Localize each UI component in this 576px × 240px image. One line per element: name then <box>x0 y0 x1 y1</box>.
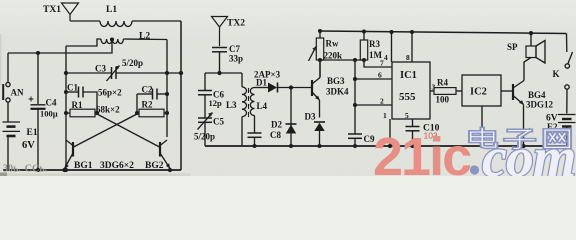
transformer core dashes <box>248 88 250 117</box>
wire threshold vertical x355 <box>354 60 356 134</box>
svg-text:5: 5 <box>405 111 409 120</box>
inductor L1 <box>100 5 132 27</box>
svg-text:100: 100 <box>436 95 450 105</box>
svg-text:AN: AN <box>11 88 24 98</box>
node antenna tank <box>217 71 221 75</box>
diode D1 <box>255 78 313 93</box>
svg-text:8: 8 <box>406 53 410 62</box>
wire left rail upper <box>7 53 9 82</box>
svg-text:R3: R3 <box>369 39 380 49</box>
resistor R3 <box>360 32 392 68</box>
capacitor C9 <box>348 134 375 146</box>
svg-text:IC2: IC2 <box>470 87 487 98</box>
wire Rw to R3 bottom <box>320 59 364 61</box>
svg-text:6V: 6V <box>22 140 35 151</box>
wire tank top <box>205 72 242 74</box>
wire BG2 collector rail x167 <box>166 40 168 138</box>
svg-text:Rw: Rw <box>326 39 339 49</box>
svg-text:21ic: 21ic <box>373 127 471 176</box>
svg-text:SP: SP <box>507 42 518 52</box>
capacitor C6 <box>198 90 224 109</box>
node pin4 rail <box>389 30 393 34</box>
node Rw top <box>318 29 322 33</box>
speaker SP <box>507 33 545 63</box>
svg-text:K: K <box>553 69 560 79</box>
node x355 top <box>353 58 357 62</box>
watermark hanzi zi <box>506 131 534 149</box>
svg-text:6: 6 <box>378 71 382 80</box>
capacitor C8 <box>248 130 282 146</box>
node L2 center tap <box>110 37 114 41</box>
svg-text:C3: C3 <box>95 64 106 74</box>
svg-text:C2: C2 <box>142 85 153 95</box>
watermark blue dot <box>470 165 479 174</box>
wire left rail lower <box>7 136 9 170</box>
node SP rail <box>529 31 533 35</box>
node C3 left <box>64 71 68 75</box>
node x66 bottom <box>64 168 68 172</box>
wire tank left upper <box>204 73 206 90</box>
node pin2 <box>353 103 357 107</box>
svg-text:L2: L2 <box>139 32 150 42</box>
transistor BG2 <box>160 140 170 170</box>
node R1 left <box>64 111 68 115</box>
node R2-C2 junction <box>135 111 139 115</box>
inductor L4 <box>250 88 267 133</box>
trimmer capacitor C3 row <box>66 58 181 81</box>
svg-text:TX2: TX2 <box>227 19 245 29</box>
node BG1 emitter ground <box>62 168 66 172</box>
wire antenna to L1 <box>70 20 100 22</box>
svg-text:L1: L1 <box>106 5 117 15</box>
svg-text:C4: C4 <box>46 98 57 108</box>
battery E1 <box>3 122 38 151</box>
svg-text:D1: D1 <box>256 78 267 88</box>
svg-text:1: 1 <box>383 111 387 120</box>
node pin1 ground <box>388 144 392 148</box>
node D3 ground <box>317 144 321 148</box>
scan edge artifact bottom shadow band <box>0 174 190 177</box>
wire C2-R2 left vertical <box>136 94 138 113</box>
node pin8 rail <box>410 30 414 34</box>
node pin6 <box>353 77 357 81</box>
op IC1 555 box <box>392 62 430 119</box>
node C1 left <box>64 90 68 94</box>
wire left rail mid <box>7 102 9 122</box>
node C2 right <box>165 92 169 96</box>
wire tank left mid <box>204 95 206 118</box>
wire +V rail y53 with tap to L2 <box>8 39 112 53</box>
node Rw bottom collector <box>318 58 322 62</box>
svg-text:C7: C7 <box>229 44 240 54</box>
wire right rail of transmitter <box>180 21 182 170</box>
capacitor C7 <box>212 44 243 73</box>
svg-text:R2: R2 <box>142 100 153 110</box>
inductor L3 <box>226 73 247 146</box>
svg-text:BG1: BG1 <box>74 161 93 171</box>
svg-text:12p: 12p <box>209 98 223 108</box>
potentiometer Rw <box>309 31 343 78</box>
switch K <box>553 34 573 114</box>
node C4 top <box>36 51 40 55</box>
transistor BG4 <box>513 58 554 147</box>
svg-text:30ь. CCь.: 30ь. CCь. <box>3 164 48 175</box>
watermark hanzi dian <box>471 129 496 148</box>
node D1 out <box>289 85 293 89</box>
wire cross coupling to BG2 base <box>97 114 160 147</box>
wire top supply rail <box>319 31 567 34</box>
wire pin2 <box>355 104 392 106</box>
node C3 right rail <box>179 71 183 75</box>
wire IC2 ground <box>481 106 483 146</box>
svg-text:BG3: BG3 <box>327 76 345 86</box>
svg-text:C8: C8 <box>270 130 281 140</box>
node C4 bottom <box>36 168 40 172</box>
svg-text:L4: L4 <box>257 101 268 111</box>
wire tank left lower <box>204 123 206 146</box>
svg-text:C1: C1 <box>67 83 78 93</box>
resistor R2 <box>137 100 167 117</box>
svg-text:R1: R1 <box>72 100 83 110</box>
svg-text:220k: 220k <box>324 51 343 61</box>
op IC2 box <box>462 75 501 106</box>
svg-text:3DG12: 3DG12 <box>526 100 554 110</box>
node BG4 emitter ground <box>521 144 525 148</box>
svg-text:56p×2: 56p×2 <box>98 88 122 98</box>
wire bottom rail of transmitter <box>3 169 181 171</box>
svg-text:L3: L3 <box>226 100 237 110</box>
scan edge artifact bottom-left blob <box>0 173 7 177</box>
wire BG1 collector rail x66 <box>65 46 67 170</box>
pin 5 and capacitor C10 <box>405 111 440 146</box>
resistor R1 <box>66 100 97 117</box>
wire L2 left lead <box>66 39 101 46</box>
capacitor C4 branch <box>29 53 58 170</box>
node D2 ground <box>289 144 293 148</box>
svg-text:3DK4: 3DK4 <box>326 87 349 97</box>
svg-text:BG2: BG2 <box>145 161 164 171</box>
battery E2 <box>546 114 576 147</box>
node pin5 ground <box>410 144 414 148</box>
capacitor C2 row <box>137 85 167 100</box>
svg-text:R4: R4 <box>437 78 448 88</box>
svg-text:BG4: BG4 <box>528 90 546 100</box>
svg-text:E1: E1 <box>27 128 38 138</box>
wire IC2 to BG4 <box>501 90 513 92</box>
transistor BG3 <box>312 60 349 118</box>
wire L1 to right rail <box>132 20 181 22</box>
pin 8 <box>406 32 412 62</box>
svg-text:3DG6×2: 3DG6×2 <box>100 161 134 171</box>
wire receiver ground rail <box>205 145 566 147</box>
wire cross coupling to BG1 base <box>74 114 138 147</box>
node BG2 emitter ground <box>168 168 172 172</box>
diode D3 <box>305 112 326 147</box>
trimmer capacitor C5 <box>194 113 224 142</box>
resistor R4 <box>430 78 462 105</box>
svg-text:TX1: TX1 <box>43 5 61 15</box>
svg-text:IC1: IC1 <box>400 70 417 81</box>
node R3 top <box>362 29 366 33</box>
svg-text:2: 2 <box>380 97 384 106</box>
svg-text:5/20p: 5/20p <box>122 58 143 68</box>
node IC2 ground <box>480 144 484 148</box>
svg-text:555: 555 <box>399 91 416 103</box>
svg-text:D2: D2 <box>271 120 282 130</box>
pin 4 <box>384 32 392 62</box>
node R2 right <box>165 111 169 115</box>
svg-text:68k×2: 68k×2 <box>96 105 120 115</box>
pin 1 <box>383 111 390 146</box>
svg-text:C5: C5 <box>213 117 224 127</box>
svg-text:4: 4 <box>384 53 388 62</box>
antenna TX1 <box>43 3 79 21</box>
capacitor C1 row <box>66 83 97 114</box>
node C9 ground <box>353 144 357 148</box>
wire L2 right lead <box>123 38 167 41</box>
node R1-C1 junction <box>95 111 99 115</box>
node R3 bottom <box>362 58 366 62</box>
svg-text:D3: D3 <box>305 112 316 122</box>
svg-text:100µ: 100µ <box>40 109 58 119</box>
inductor L2 <box>101 32 150 44</box>
node C8 ground <box>252 144 256 148</box>
scan edge artifact left streak <box>0 34 1 86</box>
watermark hanzi wang <box>545 130 569 147</box>
pushbutton AN <box>3 82 24 102</box>
transistor BG1 <box>65 140 74 170</box>
node L2 right to C3 <box>165 71 169 75</box>
wire pin6 <box>355 78 392 80</box>
antenna TX2 <box>212 17 246 47</box>
svg-text:7: 7 <box>380 59 384 68</box>
svg-text:33p: 33p <box>229 54 243 64</box>
diode D2 <box>271 88 297 147</box>
